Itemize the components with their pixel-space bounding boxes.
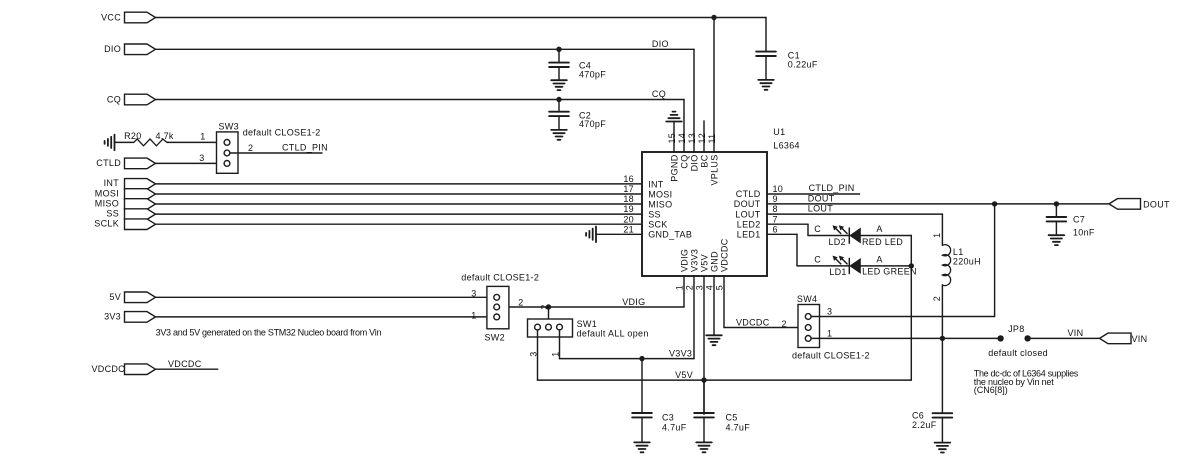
svg-text:VIN: VIN [1068, 328, 1084, 338]
svg-text:LED2: LED2 [737, 219, 761, 229]
svg-text:LOUT: LOUT [735, 209, 760, 219]
svg-text:10: 10 [773, 184, 784, 194]
svg-text:VDCDC: VDCDC [720, 238, 730, 272]
svg-text:MISO: MISO [648, 199, 672, 209]
svg-text:V5V: V5V [700, 254, 710, 272]
svg-text:SS: SS [648, 210, 661, 220]
svg-text:3: 3 [694, 285, 704, 290]
svg-text:default closed: default closed [988, 348, 1048, 358]
svg-text:default ALL open: default ALL open [577, 329, 649, 339]
svg-text:C7: C7 [1073, 215, 1085, 225]
svg-text:3: 3 [827, 307, 832, 317]
svg-text:C5: C5 [726, 413, 738, 423]
svg-text:5V: 5V [109, 292, 121, 302]
svg-text:DOUT: DOUT [808, 193, 835, 203]
svg-text:18: 18 [623, 194, 634, 204]
svg-text:1: 1 [932, 233, 942, 238]
svg-text:SW2: SW2 [485, 333, 505, 343]
svg-text:PGND: PGND [670, 154, 680, 181]
svg-text:C3: C3 [662, 413, 674, 423]
svg-text:6: 6 [773, 224, 778, 234]
svg-text:9: 9 [773, 194, 778, 204]
svg-text:VDCDC: VDCDC [168, 359, 202, 369]
svg-text:LED1: LED1 [737, 230, 761, 240]
svg-text:20: 20 [623, 214, 634, 224]
svg-text:CTLD_PIN: CTLD_PIN [809, 183, 855, 193]
svg-text:4: 4 [704, 285, 714, 290]
svg-text:470pF: 470pF [579, 69, 606, 79]
svg-text:(CN6[8]): (CN6[8]) [974, 385, 1008, 395]
svg-text:CQ: CQ [652, 89, 666, 99]
svg-text:0.22uF: 0.22uF [788, 59, 818, 69]
svg-text:V5V: V5V [675, 370, 693, 380]
svg-text:DIO: DIO [652, 39, 669, 49]
svg-text:VDCDC: VDCDC [736, 317, 770, 327]
svg-text:A: A [876, 224, 882, 234]
svg-text:V3V3: V3V3 [669, 348, 692, 358]
svg-text:DIO: DIO [104, 44, 121, 54]
svg-text:C6: C6 [912, 410, 924, 420]
svg-text:2: 2 [781, 319, 786, 329]
svg-text:CQ: CQ [107, 94, 121, 104]
svg-text:JP8: JP8 [1008, 324, 1024, 334]
svg-text:15: 15 [667, 133, 677, 144]
svg-text:default CLOSE1-2: default CLOSE1-2 [792, 350, 870, 360]
svg-text:1: 1 [674, 285, 684, 290]
svg-text:2: 2 [518, 297, 523, 307]
svg-text:SCK: SCK [648, 220, 667, 230]
svg-text:11: 11 [707, 134, 717, 144]
svg-text:14: 14 [677, 133, 687, 144]
svg-text:DIO: DIO [690, 155, 700, 172]
svg-text:CTLD_PIN: CTLD_PIN [282, 143, 328, 153]
svg-text:17: 17 [623, 184, 634, 194]
svg-text:C: C [814, 255, 821, 265]
svg-text:8: 8 [773, 204, 778, 214]
svg-text:1: 1 [827, 329, 832, 339]
svg-text:3V3 and 5V generated on the ST: 3V3 and 5V generated on the STM32 Nucleo… [156, 328, 382, 338]
svg-text:MISO: MISO [95, 199, 119, 209]
svg-text:21: 21 [623, 224, 634, 234]
svg-text:default CLOSE1-2: default CLOSE1-2 [461, 273, 539, 283]
svg-text:LOUT: LOUT [808, 204, 833, 214]
svg-text:INT: INT [648, 179, 664, 189]
svg-text:DOUT: DOUT [1143, 200, 1170, 210]
svg-text:R20: R20 [124, 131, 141, 141]
svg-text:V3V3: V3V3 [690, 249, 700, 272]
svg-text:VCC: VCC [101, 12, 121, 22]
svg-text:1: 1 [471, 311, 476, 321]
svg-text:10nF: 10nF [1073, 228, 1095, 238]
svg-text:VDIG: VDIG [680, 249, 690, 272]
svg-text:L6364: L6364 [773, 140, 800, 150]
svg-text:C: C [814, 224, 821, 234]
svg-text:3: 3 [529, 351, 539, 356]
svg-text:GND_TAB: GND_TAB [648, 230, 692, 240]
svg-text:DOUT: DOUT [734, 199, 761, 209]
svg-text:LED GREEN: LED GREEN [862, 267, 917, 277]
svg-text:VDIG: VDIG [622, 297, 645, 307]
svg-text:4.7uF: 4.7uF [662, 423, 687, 433]
svg-text:RED LED: RED LED [862, 237, 903, 247]
svg-text:LD1: LD1 [829, 267, 846, 277]
svg-text:470pF: 470pF [579, 119, 606, 129]
svg-text:VPLUS: VPLUS [710, 155, 720, 186]
svg-text:3: 3 [199, 153, 204, 163]
svg-text:BC: BC [700, 154, 710, 167]
svg-text:2: 2 [932, 296, 942, 301]
svg-text:U1: U1 [773, 127, 785, 137]
svg-text:LD2: LD2 [829, 237, 846, 247]
svg-text:3: 3 [471, 288, 476, 298]
svg-text:3V3: 3V3 [104, 312, 121, 322]
svg-text:L1: L1 [953, 247, 964, 257]
svg-text:MOSI: MOSI [95, 189, 119, 199]
svg-text:7: 7 [773, 214, 778, 224]
svg-text:SW1: SW1 [577, 319, 597, 329]
svg-text:5: 5 [714, 285, 724, 290]
svg-text:1: 1 [551, 351, 561, 356]
svg-text:CTLD: CTLD [736, 189, 761, 199]
svg-text:2.2uF: 2.2uF [912, 420, 937, 430]
svg-text:19: 19 [623, 204, 634, 214]
svg-text:SCLK: SCLK [94, 219, 119, 229]
svg-text:2: 2 [684, 285, 694, 290]
svg-text:2: 2 [540, 304, 550, 309]
svg-text:CQ: CQ [680, 155, 690, 169]
svg-text:12: 12 [697, 133, 707, 144]
svg-text:CTLD: CTLD [96, 158, 121, 168]
svg-text:A: A [876, 254, 882, 264]
svg-text:GND: GND [710, 251, 720, 272]
svg-text:2: 2 [248, 143, 253, 153]
svg-text:4.7uF: 4.7uF [726, 423, 751, 433]
svg-text:default CLOSE1-2: default CLOSE1-2 [243, 127, 321, 137]
svg-text:16: 16 [623, 174, 634, 184]
svg-text:SW3: SW3 [219, 122, 239, 132]
svg-text:220uH: 220uH [953, 257, 981, 267]
svg-text:MOSI: MOSI [648, 189, 672, 199]
svg-text:13: 13 [687, 133, 697, 144]
svg-text:INT: INT [104, 178, 120, 188]
svg-text:SS: SS [106, 208, 119, 218]
svg-text:1: 1 [200, 132, 205, 142]
svg-text:4.7k: 4.7k [156, 131, 174, 141]
svg-text:SW4: SW4 [797, 294, 817, 304]
svg-text:VDCDC: VDCDC [91, 364, 125, 374]
svg-text:VIN: VIN [1132, 334, 1148, 344]
